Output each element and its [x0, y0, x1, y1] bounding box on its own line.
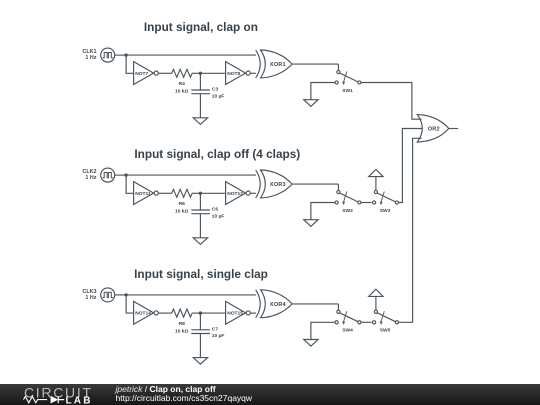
svg-text:R6: R6 [179, 201, 186, 207]
wire C3 to ground [199, 94, 201, 118]
svg-text:R4: R4 [179, 81, 186, 87]
footer credit text [116, 385, 253, 404]
switch SW3 [373, 190, 399, 205]
switch SW2 [335, 190, 361, 205]
XOR gate XOR4 [256, 290, 292, 318]
ground [193, 118, 207, 125]
node RC junction [199, 192, 202, 195]
node CLK2 junction [124, 173, 127, 176]
svg-text:XOR1: XOR1 [270, 62, 286, 68]
svg-text:10 µF: 10 µF [212, 213, 225, 219]
wire CLK2 to node [115, 174, 126, 176]
wire NOT11 out to R6 [158, 192, 172, 194]
svg-text:10 kΩ: 10 kΩ [175, 89, 189, 95]
svg-text:10 µF: 10 µF [212, 333, 225, 339]
svg-text:SW3: SW3 [380, 208, 391, 214]
wire down to SW2 [337, 184, 339, 190]
wire SW1 throw to ground [311, 83, 335, 100]
node CLK1 junction [124, 53, 127, 56]
svg-text:SW4: SW4 [342, 328, 353, 334]
clock source CLK2 [101, 168, 115, 182]
inverter NOT7 [134, 62, 159, 85]
wire C7 to ground [199, 334, 201, 358]
wire CLK1 to node [115, 54, 126, 56]
wire SW3 to OR2 middle input [399, 129, 422, 203]
svg-text:Input signal, single clap: Input signal, single clap [134, 267, 268, 281]
inverter NOT8 [226, 62, 251, 85]
svg-text:SW5: SW5 [380, 328, 391, 334]
wire node to XOR4 top input [126, 294, 256, 296]
clock source CLK1 [101, 48, 115, 62]
wire node down to NOT11 input [126, 175, 134, 193]
svg-text:NOT8: NOT8 [227, 71, 240, 77]
wire VCC to SW3 [375, 177, 377, 191]
wire VCC to SW5 [375, 296, 377, 310]
wire SW4 to SW5 [361, 321, 372, 323]
svg-text:10 kΩ: 10 kΩ [175, 328, 189, 334]
footer bar [0, 384, 540, 405]
capacitor C7 10 uF [191, 330, 210, 334]
wire down to SW4 [337, 304, 339, 310]
capacitor C3 10 uF [191, 90, 210, 94]
wire XOR1 output [292, 63, 338, 65]
supply VCC arrow [369, 169, 383, 176]
inverter NOT11 [134, 182, 159, 205]
wire RC node down to C3 [199, 73, 201, 90]
wire SW1 to OR2 top input [361, 83, 422, 120]
svg-text:C3: C3 [212, 87, 219, 93]
inverter NOT12 [226, 182, 251, 205]
svg-text:OR2: OR2 [428, 126, 440, 132]
wire SW5 to OR2 bottom input [399, 138, 422, 322]
svg-text:NOT14: NOT14 [135, 311, 151, 317]
wire node to XOR1 top input [126, 54, 256, 56]
svg-text:R8: R8 [179, 321, 186, 327]
wire XOR3 output [292, 183, 338, 185]
wire node down to NOT7 input [126, 55, 134, 73]
ground [193, 358, 207, 365]
svg-text:C6: C6 [212, 207, 219, 213]
CircuitLab logo [0, 384, 110, 405]
ground [193, 238, 207, 245]
svg-text:C7: C7 [212, 326, 219, 332]
XOR gate XOR3 [256, 170, 292, 198]
wire OR2 output [449, 128, 458, 130]
svg-text:NOT7: NOT7 [135, 71, 148, 77]
inverter NOT15 [226, 301, 251, 324]
inverter NOT14 [134, 301, 159, 324]
XOR gate XOR1 [256, 50, 292, 78]
ground [304, 340, 318, 347]
wire node down to NOT14 input [126, 295, 134, 313]
supply VCC arrow [369, 289, 383, 296]
resistor R8 10 k [172, 309, 192, 317]
svg-text:10 kΩ: 10 kΩ [175, 209, 189, 215]
capacitor C6 10 uF [191, 210, 210, 214]
wire node to XOR3 top input [126, 174, 256, 176]
wire C6 to ground [199, 214, 201, 238]
svg-text:XOR3: XOR3 [270, 182, 286, 188]
wire RC node to NOT8 input [200, 72, 225, 74]
wire XOR4 output [292, 303, 338, 305]
svg-text:Input signal, clap on: Input signal, clap on [144, 20, 258, 34]
ground [304, 220, 318, 227]
svg-text:1 Hz: 1 Hz [85, 295, 96, 301]
switch SW5 [373, 310, 399, 325]
resistor R4 10 k [172, 69, 192, 77]
svg-text:SW1: SW1 [342, 88, 353, 94]
wire RC node to NOT15 input [200, 312, 225, 314]
wire RC node to NOT12 input [200, 192, 225, 194]
clock source CLK3 [101, 288, 115, 302]
svg-text:NOT15: NOT15 [227, 311, 243, 317]
wire SW2 to SW3 [361, 202, 372, 204]
svg-text:1 Hz: 1 Hz [85, 175, 96, 181]
ground [304, 100, 318, 107]
svg-text:NOT12: NOT12 [227, 191, 243, 197]
svg-text:LAB: LAB [66, 395, 93, 405]
node RC junction [199, 72, 202, 75]
wire R6 to RC node [192, 192, 200, 194]
wire R4 to RC node [192, 72, 200, 74]
wire NOT14 out to R8 [158, 312, 172, 314]
wire NOT15 out to XOR4 bottom input [250, 312, 256, 314]
wire NOT7 out to R4 [158, 72, 172, 74]
svg-text:SW2: SW2 [342, 208, 353, 214]
svg-text:10 µF: 10 µF [212, 93, 225, 99]
switch SW1 [335, 70, 361, 85]
svg-text:1 Hz: 1 Hz [85, 55, 96, 61]
node CLK3 junction [124, 293, 127, 296]
wire SW4 throw to ground [311, 322, 335, 339]
resistor R6 10 k [172, 189, 192, 197]
wire NOT8 out to XOR1 bottom input [250, 72, 256, 74]
wire down to SW1 [337, 64, 339, 70]
node RC junction [199, 311, 202, 314]
switch SW4 [335, 310, 361, 325]
wire RC node down to C7 [199, 313, 201, 330]
svg-text:Input signal, clap off (4 clap: Input signal, clap off (4 claps) [134, 147, 300, 161]
wire RC node down to C6 [199, 193, 201, 210]
wire R8 to RC node [192, 312, 200, 314]
wire SW2 throw to ground [311, 203, 335, 220]
wire NOT12 out to XOR3 bottom input [250, 192, 256, 194]
svg-text:XOR4: XOR4 [270, 302, 287, 308]
svg-text:NOT11: NOT11 [135, 191, 151, 197]
OR gate OR2 [417, 115, 449, 142]
wire CLK3 to node [115, 294, 126, 296]
